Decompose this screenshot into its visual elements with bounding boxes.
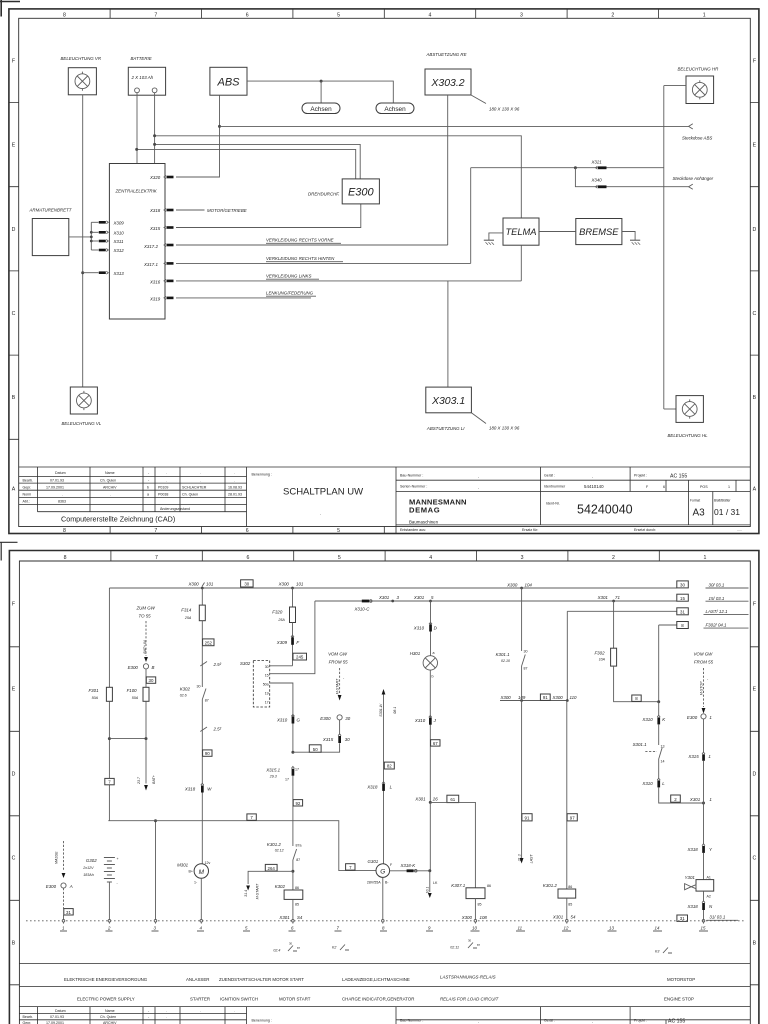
svg-text:50A: 50A (132, 696, 139, 700)
fuse F100 (127, 687, 149, 701)
svg-text:B: B (152, 665, 155, 670)
svg-text:D: D (12, 227, 16, 233)
svg-text:Blatt/Blätter: Blatt/Blätter (714, 499, 731, 503)
pin X315 and wire to E300 (149, 204, 361, 231)
pin X316 and wire VERKLEIDUNG LINKS (149, 274, 521, 285)
svg-text:86: 86 (487, 884, 491, 888)
svg-text:AC 155: AC 155 (670, 474, 687, 480)
label F302/04.1 (704, 623, 749, 628)
svg-text:G: G (297, 718, 301, 723)
svg-text:+: + (117, 857, 119, 861)
svg-text:Benennung :: Benennung : (252, 1019, 272, 1023)
ABS right wire to Achsen (247, 81, 393, 103)
ground symbol K302 (292, 920, 295, 924)
wire rail F302 riser (658, 625, 660, 702)
svg-text:.: . (200, 471, 201, 475)
junction ground stub (154, 819, 157, 822)
title Bau-Nummer row (400, 474, 687, 480)
svg-text:50a: 50a (263, 683, 269, 687)
sheet 1 ruler ticks top/bottom (110, 9, 658, 534)
ground symbol E300_A (62, 920, 65, 924)
svg-text:30: 30 (680, 583, 685, 588)
wire H301 down (429, 670, 431, 802)
svg-text:,: , (478, 1020, 479, 1024)
svg-text:6: 6 (663, 485, 665, 489)
svg-text:Änderungszustand: Änderungszustand (160, 507, 190, 511)
label X301_71 (597, 595, 621, 600)
svg-text:VOM GW: VOM GW (694, 652, 714, 657)
boxed ref 30 inline (241, 580, 254, 587)
wire F301-F100 link (109, 738, 146, 740)
junction battery right bus 1 (153, 134, 156, 137)
rail X300_109 X300_110 (500, 700, 567, 702)
svg-text:Bearb.: Bearb. (23, 479, 34, 483)
svg-text:M-STOP: M-STOP (699, 681, 703, 696)
svg-text:14: 14 (661, 760, 665, 764)
label X300_104 (506, 582, 532, 587)
ground stub battery minus (155, 821, 157, 921)
svg-text:.: . (234, 479, 235, 483)
svg-text:LAST/ 12.1: LAST/ 12.1 (706, 609, 729, 614)
svg-text:Achsen: Achsen (384, 106, 406, 113)
connector X310_G (276, 714, 301, 723)
wire X318_N to chassis (703, 910, 705, 921)
svg-text:B: B (12, 941, 16, 947)
boxed ref 245 (293, 653, 307, 660)
svg-text:10: 10 (472, 926, 477, 931)
svg-text:7: 7 (154, 528, 157, 534)
boxed ref 30 on E300_B (146, 677, 155, 683)
pin X310 (91, 231, 124, 236)
label 30/03.1 (706, 583, 749, 589)
svg-text:MOTOR/GETRIEBE: MOTOR/GETRIEBE (207, 208, 247, 213)
svg-text:ENGINE STOP: ENGINE STOP (664, 997, 694, 1002)
junction rail30/F320 (291, 587, 294, 590)
connector X318_W (184, 783, 212, 792)
svg-text:.: . (110, 493, 111, 497)
wire S302 pin50a down (270, 683, 293, 752)
svg-text:ZUENDSTARTSCHALTER MOTOR START: ZUENDSTARTSCHALTER MOTOR START (219, 977, 304, 982)
svg-text:30: 30 (197, 685, 201, 689)
boxed ref 82 (384, 762, 394, 769)
circuit position numbers (60, 930, 708, 932)
node VOM GW FROM 55 (M-START) (328, 652, 348, 665)
pin X313 (83, 271, 125, 276)
svg-text:b: b (147, 486, 149, 490)
svg-text:50: 50 (313, 747, 318, 752)
boxed ref 31 bottom (677, 915, 688, 921)
svg-text:F: F (753, 58, 756, 64)
title bottom row (400, 528, 742, 532)
lamp BELEUCHTUNG HR (678, 67, 720, 104)
wire X303.2 down to VERKLEIDUNG RECHTS VORNE line (447, 95, 449, 245)
svg-text:X310: X310 (413, 626, 425, 631)
rail 15 (315, 600, 677, 602)
svg-text:61: 61 (450, 797, 455, 802)
node ZUM GW TO 55 (136, 606, 156, 619)
boxed ref 92 (293, 800, 302, 806)
svg-text:K2: K2 (332, 946, 336, 950)
svg-text:101: 101 (296, 581, 304, 586)
junction on rail 3 (90, 240, 93, 243)
svg-text:Ch. Quien: Ch. Quien (182, 493, 198, 497)
stub 10.1 LK (426, 871, 438, 898)
svg-text:X315: X315 (149, 226, 161, 231)
svg-text:92: 92 (295, 801, 300, 806)
svg-text:15: 15 (701, 926, 706, 931)
sheet 2 column numbers (64, 555, 707, 561)
stub 23.7 BAT+ (137, 739, 156, 791)
svg-text:FROM 55: FROM 55 (329, 660, 349, 665)
wire X321 X317.1 rail (471, 167, 664, 169)
svg-text:,: , (478, 486, 479, 490)
svg-text:H301: H301 (410, 651, 421, 656)
wire TELMA to ground (489, 233, 503, 240)
svg-text:26: 26 (432, 797, 438, 802)
svg-text:87: 87 (524, 667, 528, 671)
svg-text:67: 67 (433, 741, 438, 746)
svg-text:02.10: 02.10 (501, 659, 510, 663)
wire bus battery right to E300 pin2 (155, 144, 361, 179)
connector X309_F (276, 635, 300, 645)
wire K301.2 contact to junction (292, 860, 294, 890)
svg-text:A2: A2 (707, 895, 711, 899)
svg-text:183Ah: 183Ah (83, 873, 93, 877)
svg-text:4: 4 (429, 13, 432, 19)
wire rail30 to F314 (201, 588, 203, 605)
svg-text:b: b (432, 675, 434, 679)
label LAST/12.1 (704, 609, 749, 614)
svg-text:Baumaschinen: Baumaschinen (409, 520, 439, 525)
svg-text:CHARGE INDICATOR,GENERATOR: CHARGE INDICATOR,GENERATOR (342, 997, 414, 1002)
label X300_110 (552, 695, 578, 700)
svg-text:C: C (12, 311, 16, 317)
title header Datum Name (55, 471, 235, 475)
svg-text:,: , (592, 1020, 593, 1024)
svg-text:VERKLEIDUNG RECHTS VORNE: VERKLEIDUNG RECHTS VORNE (266, 238, 334, 243)
node E300_B (128, 664, 155, 688)
relay coil K301.2 (543, 883, 576, 907)
junction LAST riser rail (566, 699, 569, 702)
svg-text:08.1: 08.1 (393, 707, 397, 714)
svg-text:BELEUCHTUNG VR: BELEUCHTUNG VR (61, 56, 102, 61)
svg-text:F: F (12, 58, 15, 64)
svg-text:X320: X320 (149, 175, 161, 180)
sheet 2 row letters left (12, 602, 16, 947)
junction X318-K (428, 869, 431, 872)
svg-text:87: 87 (296, 858, 300, 862)
svg-text:.: . (320, 511, 321, 516)
svg-text:F301: F301 (89, 688, 100, 693)
svg-text:2x12V: 2x12V (82, 866, 94, 870)
svg-text:F: F (296, 640, 299, 645)
connector X340 (591, 178, 607, 189)
wire bus battery left to E300 pin1 (137, 149, 356, 179)
relay contact K302 (180, 685, 209, 703)
svg-text:X300: X300 (552, 695, 564, 700)
svg-text:.: . (200, 479, 201, 483)
connector X318_Y (687, 844, 714, 853)
svg-text:S301-W: S301-W (379, 703, 383, 717)
svg-text:25A: 25A (277, 618, 285, 622)
label X300_101 left (188, 581, 214, 586)
svg-text:F: F (12, 602, 15, 608)
boxed ref 30 right end (677, 581, 689, 588)
svg-text:Benennung :: Benennung : (252, 473, 272, 477)
svg-text:14: 14 (655, 926, 660, 931)
svg-text:30: 30 (265, 665, 269, 669)
svg-text:E: E (753, 143, 757, 149)
svg-text:K3: K3 (655, 950, 659, 954)
boxed ref 15 right end (677, 594, 689, 601)
wire TELMA to BREMSE (539, 231, 576, 233)
TELMA retarder box (503, 218, 539, 245)
svg-text:LENKUNG/FEDERUNG: LENKUNG/FEDERUNG (266, 291, 314, 296)
svg-text:54410140: 54410140 (584, 484, 604, 489)
svg-text:17: 17 (295, 768, 299, 772)
svg-text:15/ 03.1: 15/ 03.1 (709, 596, 725, 601)
svg-text:X301: X301 (278, 915, 290, 920)
switch S301.1 (633, 724, 665, 778)
svg-text:90: 90 (205, 751, 210, 756)
svg-text:C: C (753, 856, 757, 862)
wire G302 to ground (108, 882, 110, 921)
svg-text:Datum: Datum (55, 1009, 66, 1013)
label X301_26 with boxed ref 61 (414, 795, 458, 802)
svg-text:X318: X318 (687, 904, 699, 909)
svg-text:15: 15 (265, 674, 269, 678)
svg-text:2 X 103 Ah: 2 X 103 Ah (131, 75, 154, 80)
arrow Steckdose ABS (682, 124, 712, 141)
svg-text:3: 3 (521, 555, 524, 561)
svg-text:8: 8 (63, 13, 66, 19)
svg-text:X303.1: X303.1 (431, 395, 465, 407)
svg-text:E300: E300 (348, 187, 375, 199)
wire gauge mark 2.5 upper (200, 662, 221, 668)
svg-text:VOM GW: VOM GW (328, 652, 348, 657)
svg-text:7: 7 (155, 555, 158, 561)
rail 30 main supply (109, 587, 676, 589)
stub 31.4 M-START (244, 871, 293, 899)
svg-text:BELEUCHTUNG VL: BELEUCHTUNG VL (62, 421, 102, 426)
rail LAST (567, 610, 677, 612)
svg-text:S4: S4 (297, 915, 303, 920)
svg-text:101: 101 (206, 581, 214, 586)
svg-text:5: 5 (337, 528, 340, 534)
wire Armaturenbrett to connector rail (69, 236, 92, 238)
boxed ref 67 (431, 740, 440, 746)
junction rail30/F314 (201, 587, 204, 590)
svg-text:TELMA: TELMA (506, 227, 537, 237)
svg-text:MOTORSTOP: MOTORSTOP (667, 977, 695, 982)
boxed ref 91 lower (522, 814, 532, 821)
wire S301.1 column top (658, 702, 660, 716)
svg-text:02.11: 02.11 (450, 946, 459, 950)
svg-text:30: 30 (524, 650, 528, 654)
svg-text:X310-C: X310-C (354, 606, 371, 611)
junction 23.7 BAT+ (145, 737, 148, 740)
svg-text:Ersatz für:: Ersatz für: (522, 528, 538, 532)
svg-text:X300: X300 (278, 581, 290, 586)
svg-text:.: . (62, 493, 63, 497)
svg-text:LK: LK (433, 881, 438, 885)
dashed feed M-START (335, 668, 345, 701)
ground symbol Y301 (702, 920, 705, 924)
svg-text:X300: X300 (188, 581, 200, 586)
svg-text:M: M (199, 869, 205, 876)
svg-text:VERKLEIDUNG RECHTS HINTEN: VERKLEIDUNG RECHTS HINTEN (266, 256, 335, 261)
wire gauge mark 2.5 lower (200, 727, 221, 732)
svg-text:X319: X319 (149, 297, 161, 302)
svg-text:82: 82 (387, 764, 392, 769)
wire 50a to X315_30 (293, 743, 340, 752)
svg-text:X300: X300 (500, 695, 512, 700)
sheet 1 outer border frame (9, 9, 759, 534)
wire X301_26 to K307.1 (430, 802, 475, 887)
wire F301 down (108, 701, 110, 820)
svg-text:23.7: 23.7 (137, 776, 141, 785)
junction X301_1 (702, 802, 705, 805)
svg-text:25A: 25A (184, 616, 192, 620)
svg-text:X313: X313 (113, 271, 125, 276)
svg-text:VERKLEIDUNG LINKS: VERKLEIDUNG LINKS (266, 274, 311, 279)
pin X317.1 and wire VERKLEIDUNG RECHTS HINTEN (143, 256, 471, 267)
connector X310_L (641, 778, 665, 787)
wire Y301 to X318_N (703, 891, 705, 901)
svg-text:17.09.2001: 17.09.2001 (46, 486, 64, 490)
svg-text:ABSTUETZUNG LI: ABSTUETZUNG LI (426, 426, 465, 431)
svg-text:.....: ..... (737, 528, 742, 532)
wire rail30 to F301 (108, 588, 110, 687)
svg-text:E300: E300 (687, 715, 698, 720)
svg-text:5: 5 (338, 555, 341, 561)
Achsen oval 1 (302, 103, 340, 114)
svg-text:30/ 03.1: 30/ 03.1 (709, 583, 725, 588)
svg-text:A: A (12, 486, 16, 492)
wire K301.2 coil to ground (566, 898, 568, 921)
svg-text:X301: X301 (413, 595, 425, 600)
svg-text:X315: X315 (687, 754, 699, 759)
svg-text:F: F (753, 602, 756, 608)
svg-text:Identnummer: Identnummer (544, 485, 566, 489)
svg-text:30: 30 (345, 737, 350, 742)
svg-text:86: 86 (568, 885, 572, 889)
lamp BELEUCHTUNG HL (664, 396, 708, 438)
ground symbol M301 (200, 920, 203, 924)
svg-text:Gerät :: Gerät : (544, 474, 555, 478)
connector X315_30 (322, 734, 350, 743)
svg-text:X310: X310 (641, 717, 653, 722)
junction F301/F100 (108, 737, 111, 740)
svg-text:F100: F100 (127, 688, 138, 693)
node E300_30 (320, 715, 350, 734)
wire F100 to junction (145, 701, 147, 738)
junction Achsen branch (320, 80, 323, 83)
label X301_6 (413, 595, 434, 600)
svg-text:LAST: LAST (529, 854, 533, 864)
wire F320 to X309 (292, 623, 294, 666)
connector X310_J (414, 716, 437, 725)
svg-text:6: 6 (246, 13, 249, 19)
sheet 2 row letters right (753, 602, 757, 947)
node VOM GW FROM 55 (M-STOP) (694, 652, 714, 665)
svg-text:Achsen: Achsen (310, 106, 332, 113)
junction X301_26 (429, 801, 432, 804)
pin X318 and wire MOTOR/GETRIEBE (149, 208, 247, 213)
svg-text:BAT+ IN: BAT+ IN (143, 640, 147, 654)
svg-text:12v: 12v (205, 861, 211, 865)
solenoid valve Y301 (685, 875, 714, 899)
sheet 1 column numbers top (63, 13, 706, 19)
boxed ref 264 (265, 864, 277, 871)
label X300_109 (500, 695, 526, 700)
title row Gepr (46, 486, 242, 490)
svg-text:S302: S302 (240, 661, 251, 666)
pin X317.2 and wire VERKLEIDUNG RECHTS VORNE (143, 238, 448, 250)
svg-text:2.5²: 2.5² (213, 662, 222, 667)
svg-text:X317.2: X317.2 (143, 244, 158, 249)
indicator lamp H301 (410, 651, 438, 679)
svg-text:S301.1: S301.1 (633, 742, 647, 747)
wire to Achsen oval 1 (320, 81, 322, 103)
ignition switch S302 (240, 661, 270, 708)
boxed ref 8 inline (632, 695, 641, 701)
pin X311 (91, 239, 124, 244)
svg-text:E300: E300 (46, 884, 57, 889)
svg-text:19: 19 (265, 692, 269, 696)
title row Bearb (50, 479, 235, 483)
boxed ref 31 right end (677, 608, 689, 615)
svg-text:Ch. Quien: Ch. Quien (100, 1015, 116, 1019)
wire X340 branch (575, 168, 688, 187)
stub 31.3 LAST (517, 854, 533, 864)
contact cross-ref 02.4 (273, 942, 300, 953)
label 15/03.1 (706, 596, 749, 601)
svg-text:X300: X300 (461, 915, 473, 920)
svg-text:X300: X300 (506, 582, 518, 587)
svg-text:50A: 50A (92, 696, 99, 700)
Achsen oval 2 (376, 103, 414, 114)
wire K301.1 column below rail (521, 701, 523, 859)
junction X301_6 (429, 600, 432, 603)
title Benennung (252, 473, 364, 517)
svg-text:G: G (380, 868, 385, 875)
sheet 2 ruler ticks top (111, 551, 659, 562)
svg-text:Gerät :: Gerät : (544, 1019, 555, 1023)
svg-text:RELAIS FOR LOAD CIRCUIT: RELAIS FOR LOAD CIRCUIT (440, 997, 499, 1002)
svg-text:E300: E300 (128, 665, 139, 670)
wire battery right terminal down to Zentralelektrik (154, 93, 156, 164)
sheet 1 column numbers bottom (63, 528, 340, 534)
wire X303.1 riser (447, 281, 449, 387)
svg-text:02.12: 02.12 (275, 849, 284, 853)
title block labels column (23, 479, 34, 504)
ground symbol BREMSE (630, 240, 640, 245)
label X301_S4 (278, 915, 303, 920)
junction on rail 2 (90, 236, 93, 239)
connector X310-C on rail 15 (354, 600, 373, 612)
wire M301 to ground (200, 878, 202, 921)
connector X315.1 pin17 (265, 767, 299, 782)
boxed ref 7 on battery column (105, 778, 114, 784)
title block sheet 2 outline (19, 1007, 750, 1024)
svg-text:X318: X318 (149, 208, 161, 213)
svg-text:M301: M301 (177, 863, 189, 868)
svg-text:85: 85 (478, 903, 482, 907)
svg-text:97: 97 (570, 816, 575, 821)
junction battery right bus 2 (153, 143, 156, 146)
svg-text:E: E (753, 687, 757, 693)
